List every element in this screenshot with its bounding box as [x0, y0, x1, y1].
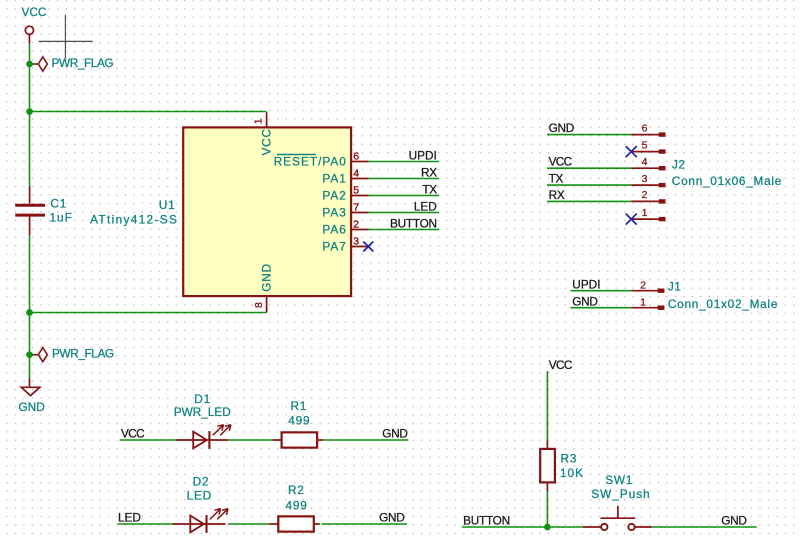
svg-text:PA1: PA1 — [322, 172, 346, 186]
svg-text:GND: GND — [260, 263, 274, 292]
svg-text:VCC: VCC — [260, 128, 274, 155]
svg-text:5: 5 — [642, 139, 648, 151]
svg-text:C1: C1 — [50, 197, 67, 211]
svg-text:3: 3 — [353, 236, 359, 248]
svg-text:BUTTON: BUTTON — [463, 513, 510, 527]
svg-text:GND: GND — [382, 426, 407, 440]
svg-text:PA6: PA6 — [322, 223, 346, 237]
svg-text:RX: RX — [421, 166, 437, 180]
svg-text:J2: J2 — [672, 157, 685, 171]
svg-text:1uF: 1uF — [50, 211, 73, 225]
svg-text:PWR_FLAG: PWR_FLAG — [52, 347, 114, 361]
svg-text:PA3: PA3 — [322, 206, 346, 220]
svg-text:6: 6 — [353, 151, 359, 163]
svg-text:D1: D1 — [194, 392, 211, 406]
svg-text:J1: J1 — [668, 279, 681, 293]
svg-text:1: 1 — [253, 118, 265, 124]
svg-text:R3: R3 — [561, 451, 578, 465]
svg-text:TX: TX — [422, 183, 437, 197]
svg-text:D2: D2 — [193, 475, 210, 489]
svg-text:10K: 10K — [560, 466, 584, 480]
svg-text:2: 2 — [353, 219, 359, 231]
svg-text:PWR_LED: PWR_LED — [174, 405, 231, 419]
svg-text:ATtiny412-SS: ATtiny412-SS — [90, 212, 178, 226]
svg-text:3: 3 — [642, 173, 648, 185]
svg-text:4: 4 — [353, 168, 359, 180]
svg-text:U1: U1 — [159, 198, 176, 212]
svg-text:499: 499 — [286, 498, 308, 512]
svg-text:1: 1 — [640, 297, 646, 309]
svg-text:BUTTON: BUTTON — [390, 217, 437, 231]
svg-text:R2: R2 — [288, 483, 305, 497]
svg-text:Conn_01x02_Male: Conn_01x02_Male — [668, 297, 778, 311]
svg-text:2: 2 — [640, 280, 646, 292]
svg-text:VCC: VCC — [22, 5, 47, 19]
svg-text:4: 4 — [642, 156, 648, 168]
svg-text:RX: RX — [549, 188, 565, 202]
svg-text:PA7: PA7 — [322, 240, 346, 254]
svg-text:Conn_01x06_Male: Conn_01x06_Male — [672, 174, 782, 188]
svg-text:UPDI: UPDI — [572, 278, 600, 292]
svg-text:TX: TX — [549, 172, 564, 186]
svg-text:GND: GND — [572, 295, 597, 309]
svg-text:LED: LED — [118, 510, 141, 524]
svg-text:GND: GND — [379, 510, 404, 524]
svg-text:6: 6 — [642, 122, 648, 134]
svg-text:GND: GND — [549, 121, 574, 135]
svg-text:2: 2 — [642, 189, 648, 201]
svg-text:499: 499 — [288, 414, 310, 428]
svg-text:5: 5 — [353, 185, 359, 197]
svg-text:UPDI: UPDI — [409, 149, 437, 163]
svg-text:VCC: VCC — [121, 426, 145, 440]
svg-text:R1: R1 — [290, 399, 307, 413]
svg-text:VCC: VCC — [549, 155, 573, 169]
svg-text:8: 8 — [253, 302, 265, 308]
svg-text:SW_Push: SW_Push — [591, 487, 650, 501]
svg-text:LED: LED — [414, 200, 437, 214]
svg-text:LED: LED — [187, 489, 212, 503]
svg-text:7: 7 — [353, 202, 359, 214]
svg-text:PA2: PA2 — [322, 189, 346, 203]
svg-text:SW1: SW1 — [605, 473, 633, 487]
svg-text:VCC: VCC — [549, 358, 573, 372]
svg-text:GND: GND — [19, 400, 45, 414]
svg-text:RESET/PA0: RESET/PA0 — [274, 155, 347, 169]
svg-text:1: 1 — [642, 207, 648, 219]
svg-text:PWR_FLAG: PWR_FLAG — [52, 56, 114, 70]
svg-text:GND: GND — [721, 513, 746, 527]
